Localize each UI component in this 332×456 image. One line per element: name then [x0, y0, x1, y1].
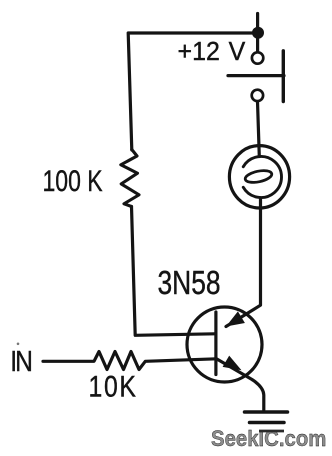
svg-text:10K: 10K	[89, 369, 138, 403]
svg-text:IN: IN	[10, 345, 31, 377]
svg-text:3N58: 3N58	[158, 265, 221, 301]
svg-text:100 K: 100 K	[43, 164, 103, 197]
svg-text:+12 V: +12 V	[178, 38, 246, 67]
